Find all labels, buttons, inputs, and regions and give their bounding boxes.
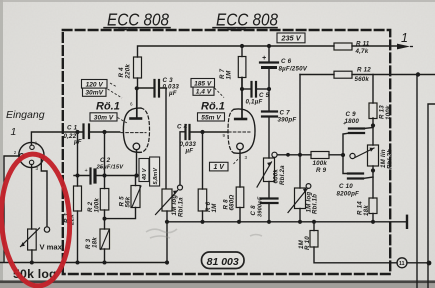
svg-text:R 9: R 9 [316, 167, 327, 174]
svg-text:Rbl.1b: Rbl.1b [312, 194, 319, 214]
svg-text:40 V: 40 V [142, 167, 148, 181]
svg-text:235 V: 235 V [280, 34, 301, 43]
svg-text:55m V: 55m V [201, 114, 221, 121]
svg-text:R 12: R 12 [357, 67, 371, 74]
svg-text:R 11: R 11 [356, 41, 370, 48]
svg-text:+: + [85, 168, 88, 174]
svg-text:1: 1 [11, 126, 17, 138]
svg-text:1: 1 [35, 141, 38, 146]
svg-text:3: 3 [245, 155, 248, 160]
svg-text:1,4 V: 1,4 V [196, 89, 212, 96]
svg-text:1M: 1M [211, 203, 218, 213]
svg-text:+: + [343, 121, 346, 127]
svg-text:100k: 100k [313, 160, 328, 167]
svg-text:µF: µF [185, 148, 194, 155]
svg-text:ECC 808: ECC 808 [107, 10, 169, 30]
svg-text:4,7k: 4,7k [355, 48, 369, 55]
svg-text:185 V: 185 V [194, 80, 212, 87]
svg-text:120 V: 120 V [86, 81, 104, 88]
svg-text:C 9: C 9 [346, 111, 357, 118]
svg-text:6: 6 [130, 102, 133, 107]
svg-text:Rbl.2b: Rbl.2b [387, 149, 394, 169]
svg-text:1800: 1800 [345, 118, 360, 125]
svg-text:8200pF: 8200pF [337, 191, 360, 198]
svg-text:9: 9 [223, 133, 226, 138]
svg-text:Rö.1: Rö.1 [96, 101, 120, 113]
svg-text:11: 11 [399, 261, 405, 267]
svg-text:1: 1 [401, 31, 408, 45]
svg-text:Rbl.1a: Rbl.1a [178, 197, 185, 217]
svg-text:56k: 56k [125, 196, 132, 207]
svg-text:Rö.1: Rö.1 [201, 101, 225, 113]
svg-text:30mV: 30mV [85, 90, 103, 97]
svg-text:C 8: C 8 [250, 205, 257, 216]
svg-text:C 6: C 6 [281, 58, 292, 65]
svg-text:3: 3 [36, 166, 39, 171]
svg-text:V max: V max [40, 243, 63, 252]
svg-text:ECC 808: ECC 808 [216, 10, 278, 30]
svg-text:1 V: 1 V [213, 164, 225, 171]
svg-text:C 2: C 2 [100, 157, 111, 164]
svg-text:µF: µF [168, 90, 177, 97]
svg-text:C 1: C 1 [67, 125, 78, 132]
svg-text:R 10: R 10 [304, 236, 311, 250]
svg-text:C 7: C 7 [280, 110, 291, 117]
svg-text:100k: 100k [385, 105, 392, 120]
svg-text:0,1µF: 0,1µF [246, 99, 263, 106]
svg-text:30m V: 30m V [94, 114, 114, 121]
svg-text:Eingang: Eingang [6, 109, 45, 121]
svg-text:C 4: C 4 [177, 124, 188, 131]
svg-text:C 10: C 10 [339, 183, 353, 190]
svg-text:3900pF: 3900pF [258, 196, 264, 217]
svg-text:8µF/250V: 8µF/250V [279, 66, 308, 73]
svg-text:81 003: 81 003 [207, 256, 239, 268]
svg-text:100k: 100k [94, 198, 101, 213]
svg-text:+: + [99, 165, 102, 171]
svg-text:+: + [262, 55, 266, 62]
svg-text:5,8mV: 5,8mV [153, 167, 159, 185]
svg-text:Rbl.2a: Rbl.2a [279, 165, 286, 185]
svg-text:390pF: 390pF [278, 117, 297, 124]
svg-text:2: 2 [14, 150, 17, 155]
svg-text:µF: µF [73, 139, 82, 146]
svg-text:560k: 560k [355, 76, 370, 83]
svg-text:680Ω: 680Ω [229, 195, 236, 211]
svg-text:220k: 220k [125, 64, 132, 80]
svg-text:18k: 18k [92, 237, 99, 248]
svg-text:1M: 1M [226, 70, 233, 80]
svg-text:18k: 18k [363, 205, 370, 216]
